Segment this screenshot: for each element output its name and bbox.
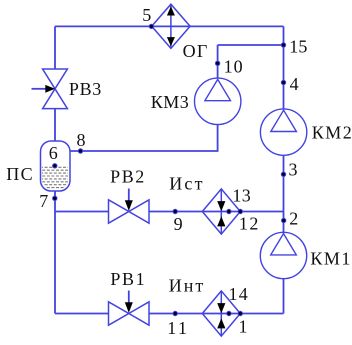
svg-text:12: 12 (239, 214, 260, 234)
svg-text:6: 6 (49, 143, 59, 163)
svg-text:8: 8 (77, 130, 87, 150)
svg-text:РВ2: РВ2 (110, 166, 146, 186)
svg-text:1: 1 (239, 317, 249, 337)
svg-text:5: 5 (142, 5, 152, 25)
svg-text:15: 15 (289, 36, 307, 56)
svg-text:4: 4 (290, 74, 300, 94)
svg-text:3: 3 (289, 159, 299, 179)
svg-text:Ист: Ист (169, 174, 204, 194)
svg-text:11: 11 (167, 318, 189, 338)
svg-text:9: 9 (174, 214, 184, 234)
svg-text:14: 14 (229, 284, 249, 304)
svg-text:10: 10 (224, 57, 244, 77)
svg-text:КМ3: КМ3 (151, 92, 190, 112)
svg-text:13: 13 (232, 185, 251, 205)
svg-text:КМ1: КМ1 (310, 249, 352, 269)
svg-text:2: 2 (289, 209, 299, 229)
svg-text:РВ1: РВ1 (110, 269, 146, 289)
svg-text:КМ2: КМ2 (312, 122, 352, 142)
svg-text:Инт: Инт (169, 276, 206, 296)
svg-text:7: 7 (39, 191, 49, 211)
svg-text:ОГ: ОГ (183, 41, 209, 61)
svg-text:ПС: ПС (6, 164, 34, 184)
svg-text:РВ3: РВ3 (69, 79, 102, 99)
